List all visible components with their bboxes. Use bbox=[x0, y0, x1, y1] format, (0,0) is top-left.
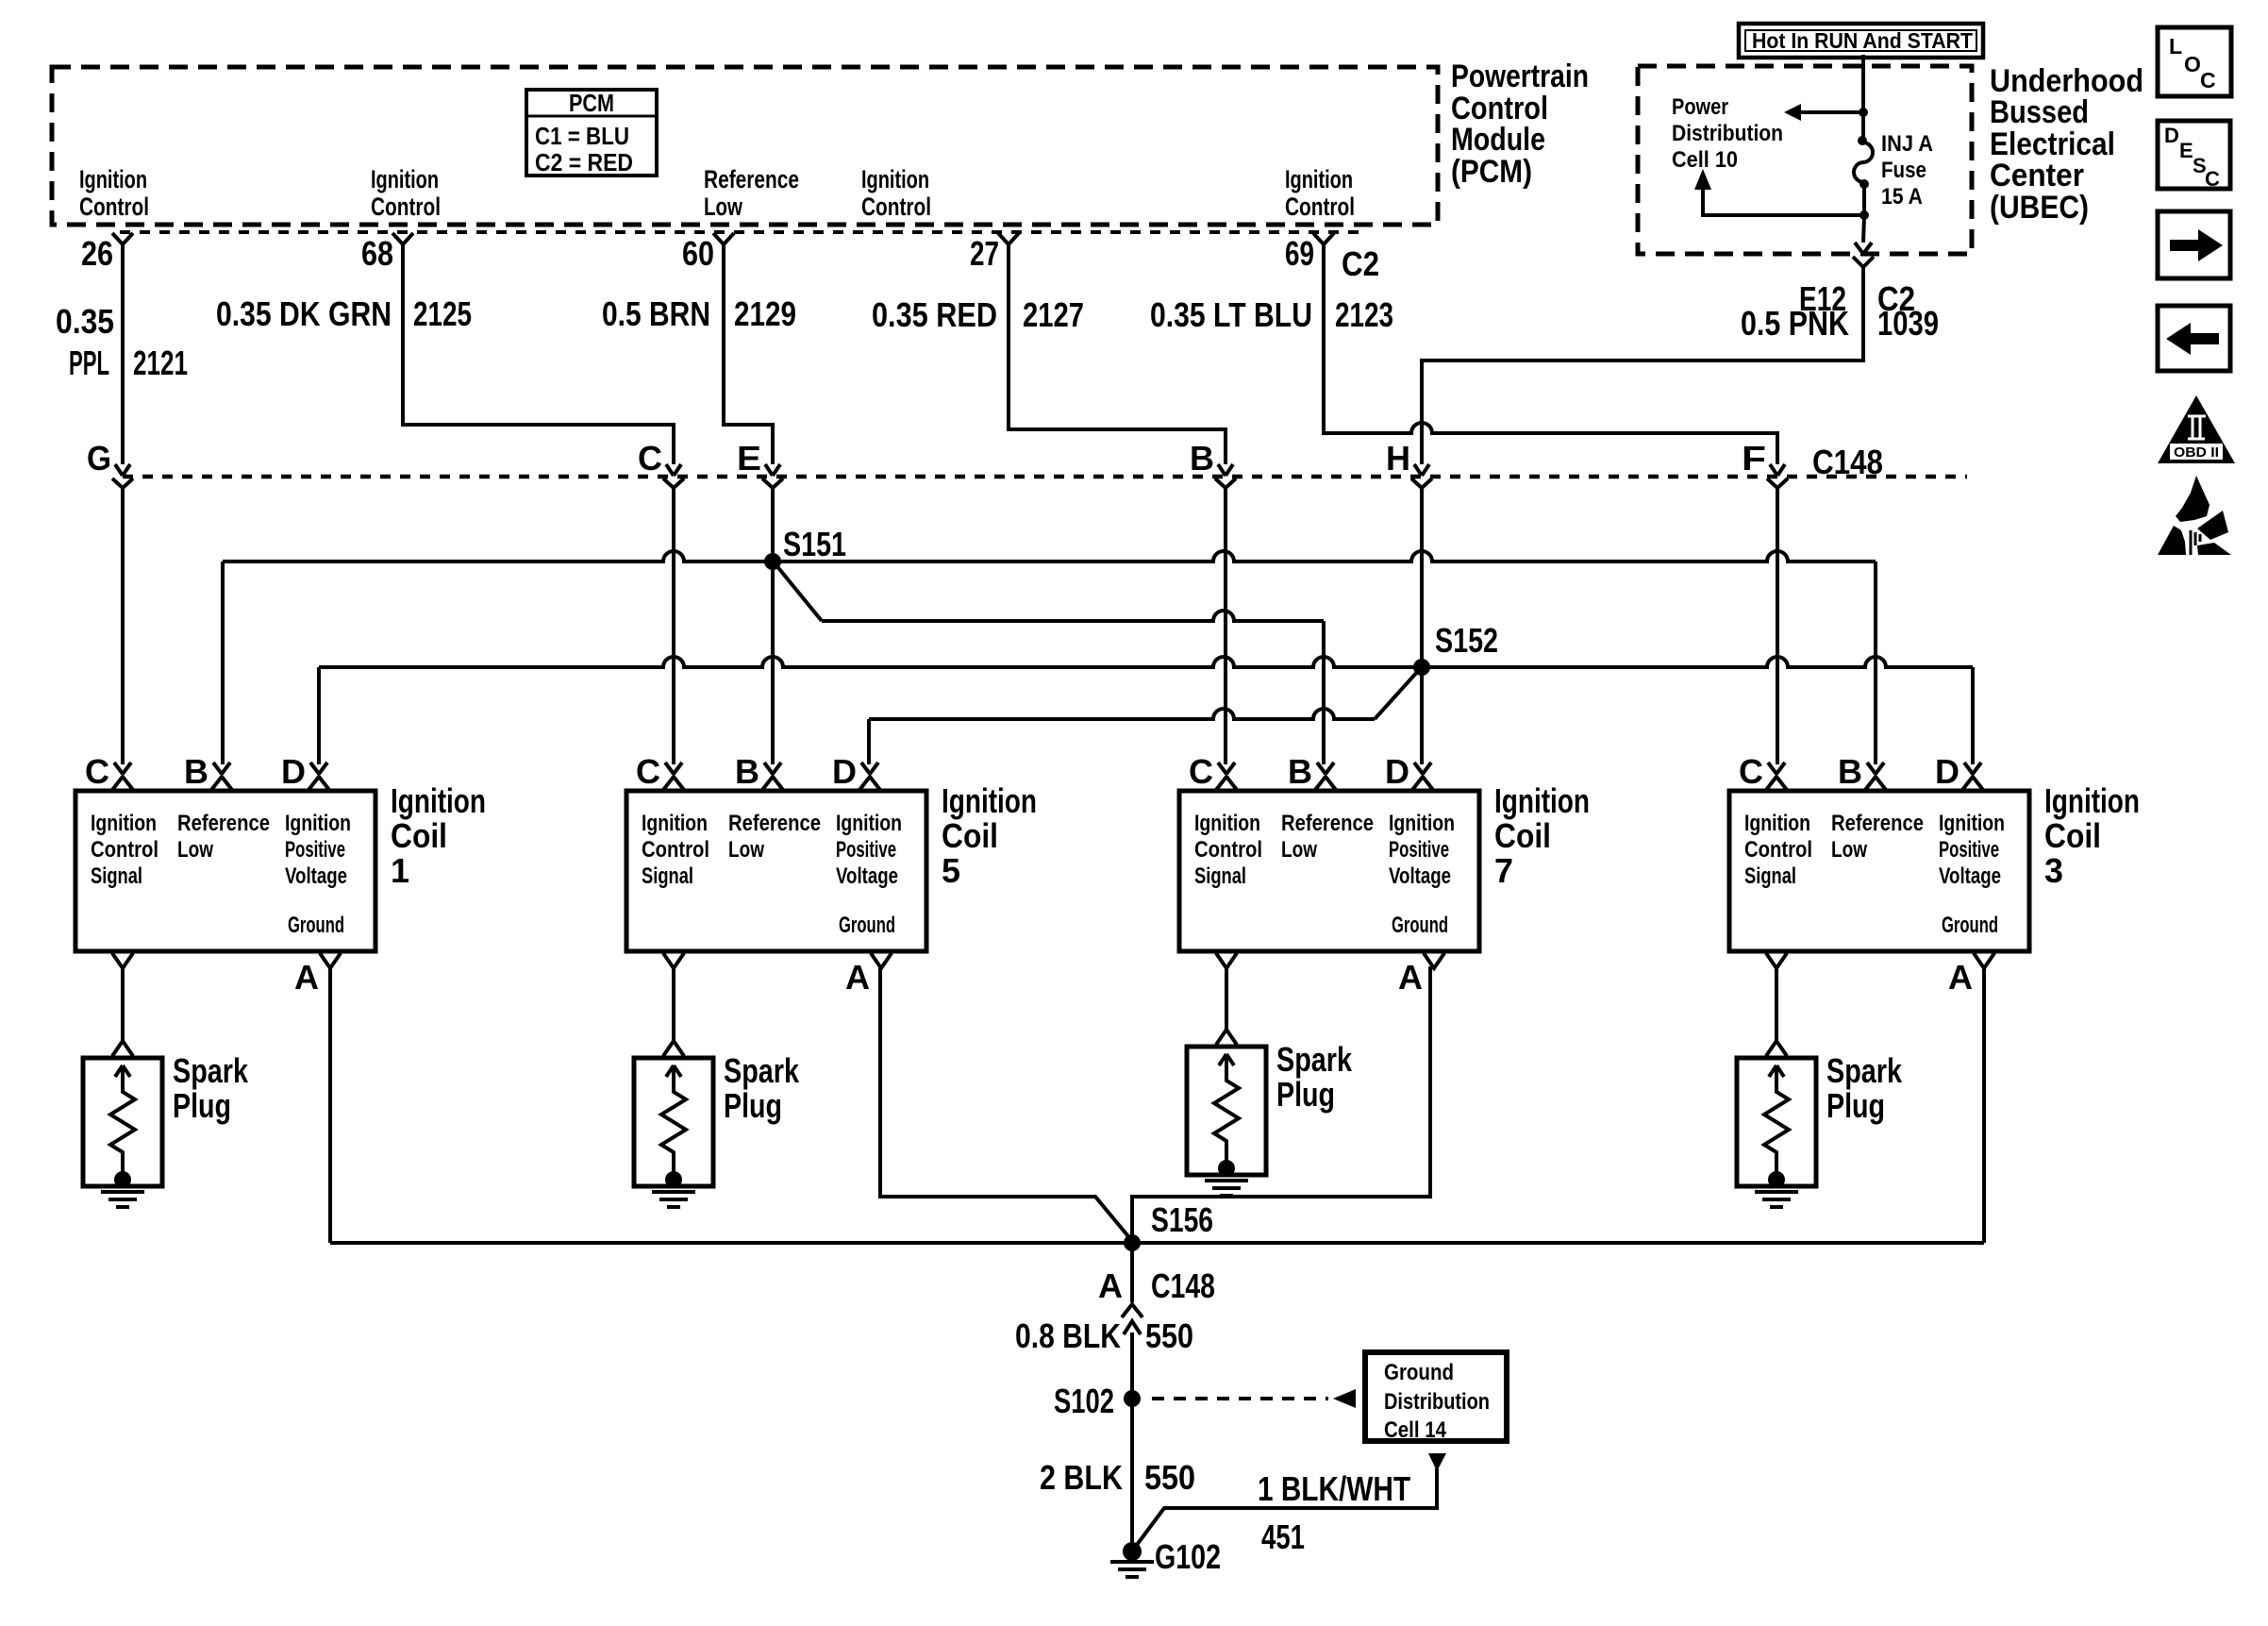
svg-text:Voltage: Voltage bbox=[285, 863, 347, 889]
svg-text:Low: Low bbox=[1281, 837, 1317, 863]
svg-text:G: G bbox=[87, 439, 111, 478]
wire 451 1 BLK/WHT label bbox=[1258, 1469, 1410, 1556]
PCM pin 26 bbox=[81, 233, 133, 273]
svg-text:2123: 2123 bbox=[1335, 295, 1393, 334]
svg-text:0.35: 0.35 bbox=[56, 302, 114, 341]
svg-text:S102: S102 bbox=[1054, 1382, 1114, 1420]
svg-text:Reference: Reference bbox=[177, 811, 270, 836]
svg-text:5: 5 bbox=[942, 851, 960, 890]
svg-text:D: D bbox=[1385, 752, 1409, 791]
svg-text:550: 550 bbox=[1144, 1458, 1195, 1497]
wire 1039 PNK (UBEC E12 to C148 H) bbox=[1422, 267, 1863, 464]
svg-text:Control: Control bbox=[861, 193, 931, 221]
svg-text:Signal: Signal bbox=[642, 863, 693, 889]
svg-text:Control: Control bbox=[1285, 193, 1355, 221]
svg-text:Positive: Positive bbox=[836, 837, 896, 863]
svg-text:Powertrain: Powertrain bbox=[1451, 59, 1589, 94]
PCM pin label "Ignition Control" bbox=[371, 165, 441, 221]
spark plug (cyl 7) bbox=[1187, 1040, 1353, 1196]
svg-text:Ignition: Ignition bbox=[391, 781, 486, 820]
svg-text:Ignition: Ignition bbox=[2044, 781, 2140, 820]
svg-text:Ignition: Ignition bbox=[861, 165, 929, 193]
wire PNK C148 H to splice S152 and coil 7 pin D bbox=[1420, 487, 1424, 764]
connector C148 dashed line bbox=[123, 475, 1967, 479]
svg-text:Signal: Signal bbox=[91, 863, 142, 889]
svg-text:C: C bbox=[638, 439, 662, 478]
svg-text:C2: C2 bbox=[1877, 279, 1915, 318]
drop to coil 1 pin D bbox=[317, 667, 321, 764]
wire 1039 0.5 PNK label bbox=[1741, 304, 1939, 343]
UBEC title label bbox=[1990, 63, 2143, 226]
wire 2125 DK GRN (PCM 68 to C148 C) bbox=[403, 244, 674, 464]
svg-text:Ignition: Ignition bbox=[79, 165, 147, 193]
svg-text:Ignition: Ignition bbox=[1939, 811, 2005, 836]
coil 1 ground wire to bus bbox=[328, 966, 332, 1243]
spark plug (cyl 3) bbox=[1737, 1051, 1903, 1207]
svg-text:PCM: PCM bbox=[569, 89, 614, 117]
svg-text:0.35 LT BLU: 0.35 LT BLU bbox=[1150, 295, 1312, 334]
svg-text:C2 = RED: C2 = RED bbox=[535, 148, 633, 176]
svg-text:Module: Module bbox=[1451, 122, 1545, 158]
svg-text:S156: S156 bbox=[1151, 1200, 1213, 1239]
svg-text:D: D bbox=[281, 752, 306, 791]
svg-text:Distribution: Distribution bbox=[1384, 1389, 1490, 1415]
svg-text:Coil: Coil bbox=[1494, 816, 1551, 855]
UBEC feed wire from Hot box bbox=[1861, 55, 1865, 110]
PCM pin label "Ignition Control" bbox=[861, 165, 931, 221]
svg-text:Positive: Positive bbox=[1389, 837, 1449, 863]
svg-text:Coil: Coil bbox=[391, 816, 447, 855]
svg-text:Reference: Reference bbox=[728, 811, 821, 836]
junction node (feed / power distribution tap) bbox=[1859, 108, 1868, 117]
svg-text:A: A bbox=[1098, 1266, 1123, 1305]
svg-text:27: 27 bbox=[970, 234, 999, 273]
PCM pin 69 bbox=[1285, 233, 1334, 273]
spark plug (cyl 1) bbox=[83, 1051, 249, 1207]
arrow up to Cell 10 (second tap) bbox=[1694, 169, 1864, 215]
svg-text:C148: C148 bbox=[1812, 443, 1883, 481]
svg-text:A: A bbox=[845, 958, 870, 997]
C148 pin E bbox=[737, 439, 783, 488]
svg-text:Positive: Positive bbox=[285, 837, 345, 863]
svg-text:D: D bbox=[832, 752, 857, 791]
svg-text:D: D bbox=[2164, 124, 2179, 147]
svg-text:B: B bbox=[735, 752, 759, 791]
svg-text:Coil: Coil bbox=[2044, 816, 2101, 855]
coil 3 ground wire to bus bbox=[1982, 966, 1986, 1243]
svg-text:Ignition: Ignition bbox=[1744, 811, 1810, 836]
svg-text:Cell 10: Cell 10 bbox=[1672, 147, 1738, 173]
svg-text:1 BLK/WHT: 1 BLK/WHT bbox=[1258, 1469, 1410, 1508]
coil 7 ground wire to S156 bbox=[1132, 966, 1430, 1243]
svg-text:2129: 2129 bbox=[734, 294, 796, 333]
splice S152 bbox=[1413, 621, 1498, 676]
PCM module dashed box bbox=[52, 67, 1438, 225]
wire 2121 PPL (PCM 26 to C148 G) bbox=[121, 244, 125, 464]
svg-text:Ignition: Ignition bbox=[1494, 781, 1590, 820]
PCM pin 68 bbox=[361, 233, 413, 273]
dashed reference to Ground Distribution bbox=[1152, 1389, 1356, 1408]
svg-text:15 A: 15 A bbox=[1881, 184, 1923, 210]
svg-text:C: C bbox=[1739, 752, 1763, 791]
svg-text:Ground: Ground bbox=[288, 913, 344, 938]
C148 pin H bbox=[1386, 439, 1432, 488]
svg-text:3: 3 bbox=[2044, 851, 2063, 890]
DESC icon box bbox=[2158, 121, 2230, 191]
svg-text:2 BLK: 2 BLK bbox=[1040, 1458, 1123, 1497]
svg-text:C: C bbox=[2200, 68, 2216, 92]
svg-text:60: 60 bbox=[682, 234, 714, 273]
svg-text:E: E bbox=[737, 439, 761, 478]
svg-text:A: A bbox=[1948, 958, 1973, 997]
OBD II symbol bbox=[2158, 395, 2235, 463]
svg-text:Control: Control bbox=[642, 837, 709, 863]
C148 pin C bbox=[638, 439, 684, 488]
wire BRN C148 E to splice S151 and coil 5 pin B bbox=[771, 487, 775, 764]
svg-text:C: C bbox=[85, 752, 109, 791]
svg-text:Cell 14: Cell 14 bbox=[1384, 1417, 1447, 1443]
C148 pin A (upward) bbox=[1098, 1266, 1215, 1334]
svg-text:Center: Center bbox=[1990, 158, 2084, 193]
splice S102 bbox=[1054, 1382, 1141, 1420]
svg-text:Ignition: Ignition bbox=[285, 811, 351, 836]
svg-text:550: 550 bbox=[1145, 1316, 1193, 1355]
PCM connector face dashed line (C1/C2) bbox=[120, 230, 1363, 234]
svg-text:C1 = BLU: C1 = BLU bbox=[535, 122, 629, 150]
arrow to Power Distribution Cell 10 bbox=[1784, 104, 1863, 121]
ground G102 bbox=[1110, 1537, 1221, 1577]
wire 2121 0.35 PPL label bbox=[56, 302, 188, 382]
drop to coil 1 pin B bbox=[221, 562, 225, 764]
svg-text:Ignition: Ignition bbox=[91, 811, 157, 836]
svg-text:G102: G102 bbox=[1155, 1537, 1221, 1576]
wire RED C148 B to coil 7 pin C bbox=[1224, 487, 1227, 764]
svg-text:0.35 RED: 0.35 RED bbox=[872, 295, 997, 334]
svg-text:Low: Low bbox=[704, 193, 743, 221]
svg-text:Low: Low bbox=[177, 837, 213, 863]
svg-text:Distribution: Distribution bbox=[1672, 121, 1783, 146]
PCM pin 27 bbox=[970, 233, 1019, 273]
svg-text:Ignition: Ignition bbox=[942, 781, 1037, 820]
svg-text:Voltage: Voltage bbox=[1389, 863, 1451, 889]
svg-text:Bussed: Bussed bbox=[1990, 94, 2089, 130]
svg-text:Control: Control bbox=[91, 837, 158, 863]
svg-text:Ignition: Ignition bbox=[642, 811, 708, 836]
svg-text:0.5 BRN: 0.5 BRN bbox=[602, 294, 710, 333]
svg-text:S152: S152 bbox=[1435, 621, 1498, 660]
PCM connector name box (C1=BLU C2=RED) bbox=[526, 89, 657, 176]
svg-text:Ground: Ground bbox=[1392, 913, 1448, 938]
svg-text:Plug: Plug bbox=[724, 1086, 782, 1125]
svg-text:Low: Low bbox=[1831, 837, 1867, 863]
wire 2123 0.35 LT BLU label bbox=[1150, 295, 1393, 334]
svg-text:Ground: Ground bbox=[839, 913, 895, 938]
svg-text:Hot In RUN And START: Hot In RUN And START bbox=[1752, 28, 1973, 53]
PCM connector C2 label bbox=[1342, 244, 1379, 283]
svg-text:C: C bbox=[2205, 167, 2220, 191]
splice S151 bbox=[764, 525, 846, 570]
ignition coil 7 bbox=[1179, 752, 1590, 1045]
svg-text:L: L bbox=[2169, 34, 2182, 59]
svg-text:Plug: Plug bbox=[173, 1086, 231, 1125]
svg-text:B: B bbox=[1838, 752, 1862, 791]
svg-text:451: 451 bbox=[1261, 1517, 1305, 1556]
svg-text:Reference: Reference bbox=[1831, 811, 1924, 836]
svg-text:F: F bbox=[1742, 439, 1766, 478]
svg-text:INJ A: INJ A bbox=[1881, 131, 1933, 157]
fuse INJ A 15 A bbox=[1854, 114, 1933, 210]
svg-text:Ignition: Ignition bbox=[371, 165, 439, 193]
PCM pin label "Ignition Control" bbox=[79, 165, 149, 221]
svg-text:S151: S151 bbox=[783, 525, 846, 563]
svg-text:B: B bbox=[184, 752, 208, 791]
svg-text:C148: C148 bbox=[1151, 1266, 1215, 1305]
svg-text:Ground: Ground bbox=[1384, 1360, 1454, 1385]
svg-text:B: B bbox=[1190, 439, 1214, 478]
svg-text:Control: Control bbox=[79, 193, 149, 221]
wire 2125 0.35 DK GRN label bbox=[216, 294, 472, 333]
ignition coil 5 bbox=[626, 752, 1037, 1056]
wire 0.8 BLK 550 (C148 A to S102) bbox=[1130, 1333, 1134, 1551]
svg-text:Signal: Signal bbox=[1744, 863, 1796, 889]
svg-text:Ignition: Ignition bbox=[1285, 165, 1353, 193]
svg-text:Control: Control bbox=[1194, 837, 1262, 863]
svg-text:1: 1 bbox=[391, 851, 409, 890]
svg-text:PPL: PPL bbox=[69, 344, 109, 382]
wire LT BLU C148 F to coil 3 pin C bbox=[1776, 487, 1779, 764]
svg-text:C: C bbox=[1189, 752, 1213, 791]
svg-text:Voltage: Voltage bbox=[1939, 863, 2001, 889]
wire DK GRN C148 C to coil 5 pin C bbox=[672, 487, 675, 764]
svg-text:E: E bbox=[2179, 139, 2193, 162]
Hot In RUN And START feed box bbox=[1739, 24, 1983, 58]
wire 2127 RED (PCM 27 to C148 B) bbox=[1009, 244, 1226, 464]
drop to coil 3 pin D bbox=[1971, 667, 1975, 764]
svg-text:Plug: Plug bbox=[1276, 1075, 1335, 1114]
svg-text:OBD II: OBD II bbox=[2174, 444, 2219, 461]
svg-text:Spark: Spark bbox=[724, 1051, 800, 1090]
svg-text:A: A bbox=[294, 958, 319, 997]
svg-text:68: 68 bbox=[361, 234, 393, 273]
back arrow icon box bbox=[2158, 306, 2230, 371]
wire 2129 BRN (PCM 60 to C148 E) bbox=[724, 244, 773, 464]
svg-text:Low: Low bbox=[728, 837, 764, 863]
wire 2129 0.5 BRN label bbox=[602, 294, 796, 333]
wire PPL C148 G to coil 1 pin C bbox=[121, 487, 125, 764]
svg-text:Spark: Spark bbox=[1826, 1051, 1903, 1090]
svg-text:Ground: Ground bbox=[1942, 913, 1998, 938]
wire 2123 LT BLU (PCM 69 to C148 F) bbox=[1324, 244, 1777, 464]
svg-text:(UBEC): (UBEC) bbox=[1990, 190, 2089, 226]
PCM pin label "Reference Low" bbox=[704, 165, 799, 221]
ignition coil 3 bbox=[1729, 752, 2140, 1056]
svg-text:26: 26 bbox=[81, 234, 113, 273]
ignition positive voltage bus (from S152) bbox=[319, 657, 1973, 667]
svg-text:69: 69 bbox=[1285, 234, 1314, 273]
LOC icon box bbox=[2158, 27, 2231, 96]
svg-text:A: A bbox=[1398, 958, 1423, 997]
svg-text:D: D bbox=[1935, 752, 1959, 791]
wire S156 to C148 pin A bbox=[1130, 1243, 1134, 1302]
UBEC output pin E12 bbox=[1799, 217, 1915, 318]
PCM title label bbox=[1451, 59, 1589, 190]
branch S152 to coil 5 pin D bbox=[869, 670, 1419, 764]
svg-text:Ignition: Ignition bbox=[1389, 811, 1455, 836]
drop to coil 3 pin B bbox=[1874, 562, 1877, 764]
forward arrow icon box bbox=[2158, 211, 2230, 278]
svg-text:Ignition: Ignition bbox=[836, 811, 902, 836]
svg-text:Positive: Positive bbox=[1939, 837, 1999, 863]
wire 550 0.8 BLK label bbox=[1015, 1316, 1193, 1355]
PCM pin label "Ignition Control" bbox=[1285, 165, 1355, 221]
Power Distribution Cell 10 label bbox=[1672, 94, 1783, 173]
svg-text:Voltage: Voltage bbox=[836, 863, 898, 889]
svg-text:Coil: Coil bbox=[942, 816, 998, 855]
svg-text:2127: 2127 bbox=[1023, 295, 1084, 334]
ignition coil 1 bbox=[75, 752, 486, 1056]
branch S151 to coil 7 pin B bbox=[775, 564, 1324, 764]
PCM pin 60 bbox=[682, 233, 734, 273]
svg-text:Signal: Signal bbox=[1194, 863, 1246, 889]
spark plug (cyl 5) bbox=[634, 1051, 800, 1207]
svg-text:B: B bbox=[1288, 752, 1312, 791]
svg-text:E12: E12 bbox=[1799, 279, 1846, 318]
svg-text:Plug: Plug bbox=[1826, 1086, 1885, 1125]
svg-text:0.8 BLK: 0.8 BLK bbox=[1015, 1316, 1121, 1355]
splice S156 bbox=[1124, 1200, 1213, 1251]
fuse output node bbox=[1859, 186, 1869, 220]
C148 connector label bbox=[1812, 443, 1883, 481]
svg-text:C: C bbox=[636, 752, 660, 791]
wire 451 1 BLK/WHT (Ground Distribution to G102) bbox=[1134, 1453, 1446, 1549]
wire 2127 0.35 RED label bbox=[872, 295, 1084, 334]
wire 550 2 BLK label bbox=[1040, 1458, 1195, 1497]
svg-text:(PCM): (PCM) bbox=[1451, 154, 1532, 190]
C148 pin F bbox=[1742, 439, 1788, 488]
svg-text:0.35 DK GRN: 0.35 DK GRN bbox=[216, 294, 392, 333]
svg-text:Ignition: Ignition bbox=[1194, 811, 1260, 836]
svg-text:Reference: Reference bbox=[704, 165, 799, 193]
svg-text:Fuse: Fuse bbox=[1881, 158, 1926, 183]
svg-text:2125: 2125 bbox=[413, 294, 472, 333]
coil 5 ground wire to S156 bbox=[880, 966, 1132, 1241]
reference low bus (from S151) bbox=[223, 551, 1876, 562]
svg-text:O: O bbox=[2184, 52, 2201, 76]
ESD sensitive device symbol bbox=[2158, 476, 2231, 555]
svg-text:7: 7 bbox=[1494, 851, 1513, 890]
svg-text:Spark: Spark bbox=[1276, 1040, 1353, 1079]
C148 pin G bbox=[87, 439, 133, 488]
svg-text:Power: Power bbox=[1672, 94, 1728, 120]
svg-text:C2: C2 bbox=[1342, 244, 1379, 283]
UBEC dashed box bbox=[1638, 66, 1972, 254]
svg-text:Control: Control bbox=[1744, 837, 1812, 863]
svg-text:Control: Control bbox=[371, 193, 441, 221]
svg-text:Spark: Spark bbox=[173, 1051, 249, 1090]
Ground Distribution Cell 14 box bbox=[1365, 1352, 1507, 1443]
ground bus bbox=[330, 1241, 1984, 1245]
svg-text:Reference: Reference bbox=[1281, 811, 1374, 836]
svg-text:H: H bbox=[1386, 439, 1410, 478]
svg-text:2121: 2121 bbox=[133, 344, 188, 382]
C148 pin B bbox=[1190, 439, 1236, 488]
